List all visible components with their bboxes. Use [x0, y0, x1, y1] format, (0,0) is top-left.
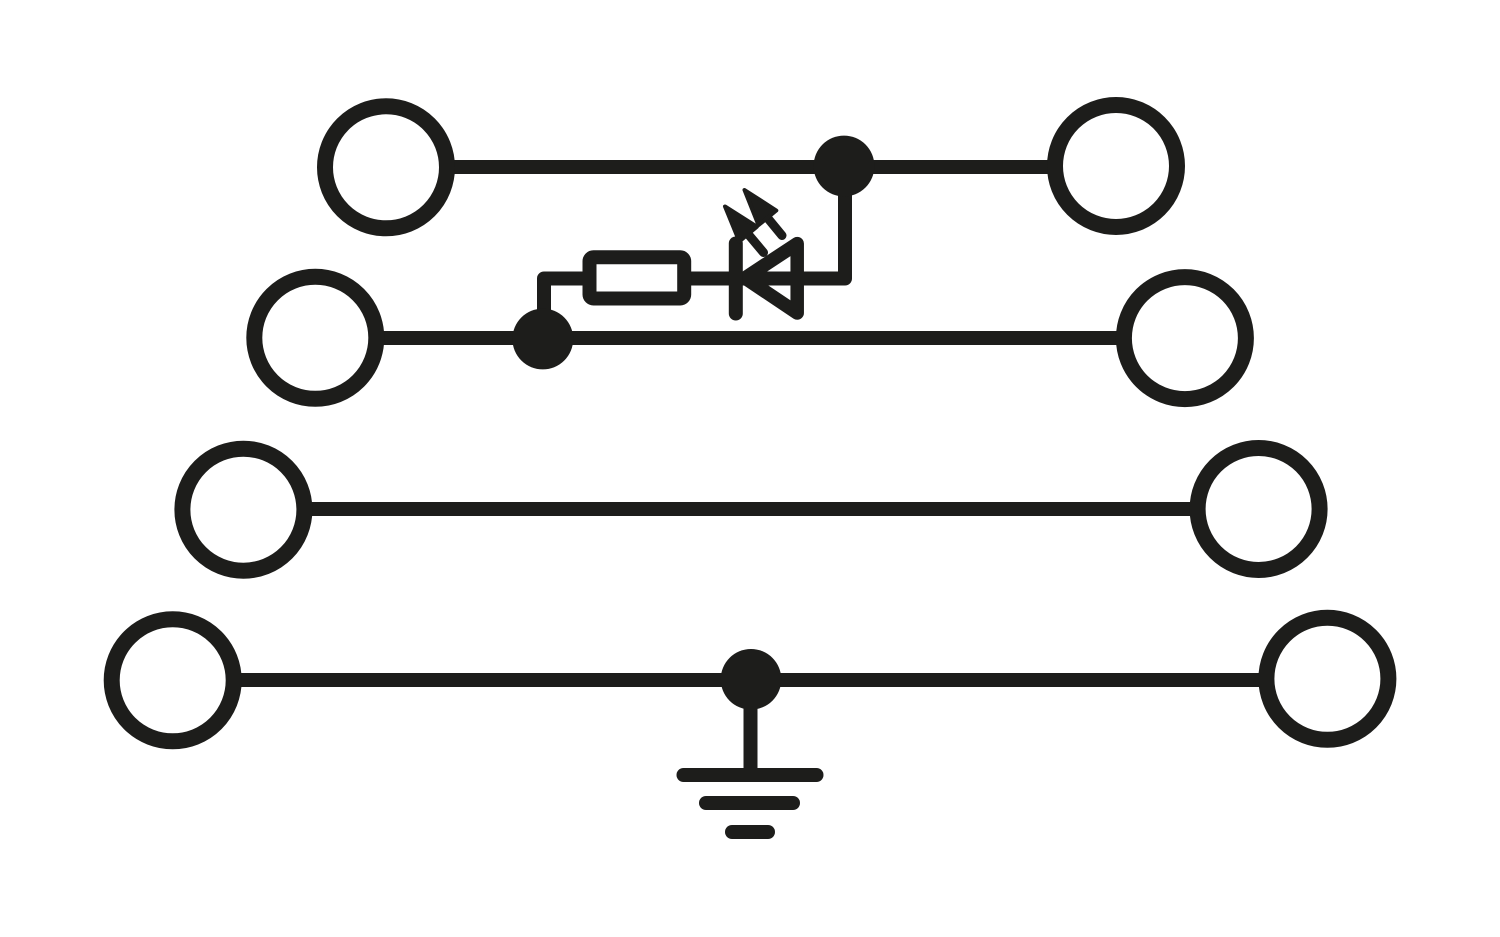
- wire rail 2: [315, 331, 1185, 345]
- terminal circle rail 4 right: [1266, 618, 1388, 740]
- resistor R1: [590, 257, 685, 298]
- LED D1 emission arrow lower: [725, 207, 764, 253]
- junction node rail 1: [814, 136, 875, 197]
- terminal circle rail 2 left: [254, 277, 376, 399]
- wire ground stub: [744, 679, 758, 775]
- LED D1 cathode bar: [729, 244, 743, 314]
- terminal circle rail 2 right: [1124, 277, 1246, 399]
- ground bar 1: [684, 768, 817, 782]
- terminal circle rail 3 right: [1198, 448, 1320, 570]
- ground bar 3: [732, 825, 768, 839]
- terminal circle rail 1 left: [325, 106, 447, 228]
- wire rail 1 (top): [386, 160, 1116, 174]
- wire rail 3: [243, 502, 1259, 516]
- terminal circle rail 1 right: [1055, 105, 1177, 227]
- LED D1 triangle: [745, 244, 797, 313]
- wire branch: rail-2 node up through resistor and LED to rail-1 node: [544, 160, 845, 350]
- terminal circle rail 4 left: [112, 619, 234, 741]
- LED D1 emission arrow upper: [745, 190, 783, 236]
- ground bar 2: [706, 796, 793, 810]
- terminal circle rail 3 left: [182, 449, 304, 571]
- wire rail 4 (bottom): [173, 673, 1327, 687]
- junction node rail 2: [512, 309, 573, 370]
- junction node rail 4 (ground node): [721, 649, 782, 710]
